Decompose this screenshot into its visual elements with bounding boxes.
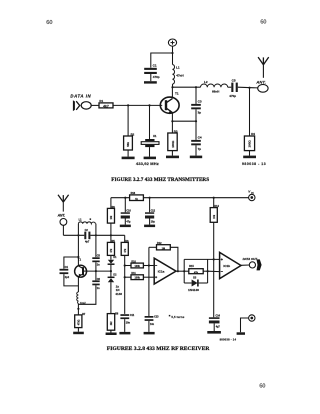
wire rail left segment bbox=[63, 234, 84, 236]
vcc rail segment 2 bbox=[143, 197, 248, 199]
diode D1 bbox=[108, 260, 115, 271]
wire collector up bbox=[171, 87, 173, 98]
node left bbox=[183, 270, 185, 272]
svg-text:4µ7: 4µ7 bbox=[216, 326, 221, 329]
transistor T1 RX bbox=[75, 265, 87, 277]
node C3 top bbox=[195, 86, 197, 88]
svg-text:47µ: 47µ bbox=[126, 220, 131, 223]
wire R1 to base bbox=[113, 104, 162, 106]
wire tank right vertical bbox=[95, 224, 97, 258]
resistor R15 bbox=[184, 269, 207, 274]
svg-text:L2: L2 bbox=[204, 80, 208, 84]
crystal X1 bbox=[141, 105, 159, 156]
terminal DATA OUT bbox=[249, 262, 255, 268]
ground under R3 bbox=[166, 156, 179, 159]
svg-text:980038 - 14: 980038 - 14 bbox=[220, 338, 237, 342]
resistor R10 bbox=[125, 263, 154, 268]
node C12 bbox=[149, 197, 151, 199]
svg-text:470p: 470p bbox=[229, 94, 236, 98]
svg-text:C4: C4 bbox=[198, 136, 202, 140]
wire loop top to C4 bbox=[64, 257, 79, 269]
node tank left rail bbox=[77, 234, 79, 236]
svg-text:C12: C12 bbox=[151, 209, 156, 212]
wire tank left vertical bbox=[77, 224, 79, 257]
node R2 bbox=[127, 104, 129, 106]
svg-text:1M: 1M bbox=[162, 248, 165, 251]
ground under C4 bbox=[190, 156, 202, 159]
ground under R2 bbox=[122, 157, 135, 160]
node R11 left bbox=[124, 276, 126, 278]
wire rail mid segment bbox=[90, 234, 124, 236]
wire base to node bbox=[87, 270, 111, 272]
resistor R12 feedback bbox=[149, 245, 178, 272]
svg-text:10n: 10n bbox=[126, 321, 131, 324]
resistor R4 bbox=[244, 88, 254, 156]
node emitter bottom bbox=[77, 308, 79, 310]
star marker L1 bbox=[90, 218, 92, 220]
terminal 0V bbox=[249, 315, 255, 321]
svg-text:R1: R1 bbox=[99, 99, 103, 103]
capacitor C6 bbox=[78, 271, 99, 304]
ground under C14 bbox=[207, 331, 221, 334]
wire supply to node bbox=[172, 46, 174, 53]
ground under R8 bbox=[106, 333, 117, 336]
node D1 D2 junction bbox=[110, 270, 112, 272]
wire emitter down bbox=[77, 276, 79, 292]
wire top bypass bbox=[184, 258, 219, 260]
ground under 0V bbox=[237, 332, 245, 335]
node R14 top bbox=[213, 197, 215, 199]
vcc rail left corner down bbox=[110, 198, 112, 209]
node collector/rail bbox=[171, 86, 173, 88]
antenna symbol RX bbox=[58, 195, 69, 212]
wire left vertical bbox=[183, 259, 185, 283]
wire emitter down bbox=[171, 113, 173, 121]
svg-text:L1: L1 bbox=[176, 66, 180, 70]
node base cap column bbox=[95, 270, 97, 272]
node emitter rail bbox=[171, 120, 173, 122]
svg-text:68nH: 68nH bbox=[212, 90, 219, 94]
capacitor C5 bbox=[231, 83, 238, 92]
wire ANT to rail bbox=[62, 225, 64, 235]
wire feedback column bbox=[148, 247, 150, 316]
resistor R11 bbox=[125, 275, 154, 280]
svg-text:DATA IN: DATA IN bbox=[70, 94, 91, 99]
node right bbox=[207, 270, 209, 272]
svg-text:R2: R2 bbox=[131, 132, 135, 136]
resistor R3 bbox=[168, 121, 177, 155]
svg-text:T1: T1 bbox=[78, 258, 82, 262]
svg-text:10n: 10n bbox=[150, 323, 155, 326]
svg-text:C3: C3 bbox=[198, 100, 202, 104]
svg-text:R3: R3 bbox=[174, 129, 178, 133]
resistor R8 bbox=[107, 314, 114, 333]
wire rail corner to R6 bbox=[124, 235, 126, 242]
capacitor C1 bbox=[144, 68, 157, 81]
diode D2 bbox=[108, 271, 115, 314]
capacitor C3 bbox=[191, 87, 201, 121]
antenna symbol bbox=[258, 57, 269, 78]
svg-text:X1: X1 bbox=[153, 134, 157, 138]
svg-text:C13: C13 bbox=[154, 316, 159, 319]
node R5 rail bbox=[110, 234, 112, 236]
svg-text:1n: 1n bbox=[97, 287, 100, 290]
resistor R9 bbox=[107, 208, 114, 235]
svg-text:100k: 100k bbox=[135, 265, 141, 268]
svg-text:FIGUREE 3.2.8 433 MHZ RF RECE: FIGUREE 3.2.8 433 MHZ RF RECEIVER bbox=[107, 346, 211, 352]
node IC1a output bbox=[177, 270, 179, 272]
terminal ANT circle bbox=[60, 219, 67, 226]
resistor R5 bbox=[107, 235, 114, 259]
capacitor C13 bbox=[145, 316, 154, 332]
wire IC1a output bbox=[176, 270, 184, 272]
capacitor C5 bbox=[92, 257, 99, 271]
svg-text:100Ω: 100Ω bbox=[248, 140, 252, 148]
terminal ANT oval bbox=[258, 84, 268, 92]
resistor R6 bbox=[121, 242, 128, 314]
node tank right rail bbox=[95, 234, 97, 236]
inductor L1 (tank) bbox=[78, 222, 95, 224]
svg-text:60: 60 bbox=[259, 383, 265, 389]
svg-text:470p: 470p bbox=[153, 75, 160, 79]
transistor T1 bbox=[160, 97, 179, 113]
ground under C10 bbox=[120, 225, 131, 228]
DATA IN oval terminal bbox=[81, 102, 91, 109]
wire terminal to R1 bbox=[91, 104, 99, 106]
svg-text:ANT.: ANT. bbox=[57, 214, 66, 218]
svg-text:IC1a: IC1a bbox=[158, 269, 165, 273]
svg-text:433,92 MHz: 433,92 MHz bbox=[136, 161, 159, 166]
wire IC1b output bbox=[241, 264, 249, 266]
wire emitter rail bbox=[172, 120, 196, 122]
DATA IN arrow symbol bbox=[73, 100, 75, 111]
svg-text:1n: 1n bbox=[97, 264, 100, 267]
svg-text:DATA OUT: DATA OUT bbox=[243, 257, 258, 261]
capacitor C4 (C-E loop) bbox=[60, 269, 69, 274]
svg-text:R16: R16 bbox=[131, 192, 136, 195]
capacitor C14 electrolytic bbox=[209, 317, 220, 331]
svg-text:R10: R10 bbox=[131, 260, 136, 263]
svg-text:C1: C1 bbox=[153, 64, 157, 68]
wire rail to L2 bbox=[173, 86, 201, 88]
node R10 left bbox=[124, 264, 126, 266]
svg-text:R11: R11 bbox=[131, 272, 136, 275]
node C3/C4 bbox=[195, 120, 197, 122]
node R4/ANT bbox=[248, 87, 250, 89]
resistor R1 bbox=[99, 103, 113, 108]
svg-text:56k: 56k bbox=[126, 142, 130, 147]
ground under C12 bbox=[144, 225, 155, 228]
capacitor C11 bbox=[120, 314, 129, 332]
svg-text:100Ω: 100Ω bbox=[171, 140, 175, 148]
ground under C13 bbox=[144, 332, 155, 335]
svg-text:5,5 turns: 5,5 turns bbox=[171, 315, 184, 319]
svg-text:C5: C5 bbox=[232, 78, 236, 82]
wire L2 to C5 bbox=[228, 86, 232, 88]
node collector corner bbox=[77, 256, 79, 258]
capacitor C2 (in rail) bbox=[84, 232, 90, 240]
diode D3 bbox=[184, 280, 207, 287]
svg-text:R4: R4 bbox=[251, 132, 255, 136]
node supply bbox=[171, 52, 173, 54]
svg-text:R14: R14 bbox=[214, 205, 219, 208]
choke L2 RX bbox=[77, 292, 79, 304]
svg-text:R15: R15 bbox=[189, 265, 194, 268]
wire loop bottom bbox=[64, 274, 79, 286]
svg-text:10µ: 10µ bbox=[151, 220, 156, 223]
node X1 bbox=[148, 104, 150, 106]
svg-text:470Ω: 470Ω bbox=[77, 319, 80, 325]
svg-text:4148: 4148 bbox=[115, 292, 122, 296]
resistor R7 bbox=[75, 304, 82, 332]
ground under C11 bbox=[119, 332, 130, 335]
svg-text:980038 - 13: 980038 - 13 bbox=[242, 162, 266, 166]
wire collector into transistor bbox=[77, 257, 79, 265]
inductor L2 bbox=[201, 84, 228, 87]
svg-text:2p2: 2p2 bbox=[65, 276, 70, 279]
DATA OUT arrow symbol bbox=[257, 259, 262, 270]
svg-text:C10: C10 bbox=[126, 209, 131, 212]
resistor R2 bbox=[124, 105, 133, 156]
wire 0V to ground bbox=[241, 318, 249, 332]
svg-text:3p: 3p bbox=[198, 111, 202, 115]
svg-text:47k: 47k bbox=[194, 271, 199, 274]
svg-text:C11: C11 bbox=[130, 314, 135, 317]
wire to IC1b minus input bbox=[208, 270, 220, 272]
inductor L1 bbox=[173, 53, 175, 87]
svg-text:100k: 100k bbox=[135, 277, 141, 280]
ground under X1 bbox=[144, 157, 156, 160]
ground under C1 bbox=[144, 81, 157, 83]
resistor R14 bbox=[210, 198, 217, 318]
svg-text:IC1b: IC1b bbox=[223, 264, 230, 268]
svg-text:60: 60 bbox=[46, 19, 52, 26]
svg-text:T1: T1 bbox=[175, 92, 179, 96]
node feedback input bbox=[148, 264, 150, 266]
svg-text:1N4148: 1N4148 bbox=[188, 288, 199, 292]
vcc rail segment 1 bbox=[111, 197, 130, 199]
wire right vertical bbox=[207, 259, 209, 283]
svg-text:C14: C14 bbox=[216, 314, 221, 317]
resistor R16 bbox=[130, 195, 144, 201]
svg-text:4p7: 4p7 bbox=[85, 241, 90, 244]
terminal Vcc bbox=[249, 194, 255, 200]
node C10 bbox=[124, 197, 126, 199]
op-amp IC1a bbox=[154, 258, 176, 284]
wire C5 to ANT node bbox=[238, 86, 258, 89]
ground under R7 bbox=[73, 332, 84, 335]
ground under R4 bbox=[243, 156, 256, 159]
op-amp IC1b bbox=[220, 252, 241, 278]
svg-text:R12: R12 bbox=[157, 242, 162, 245]
node R14 IC1b input bbox=[213, 258, 215, 260]
svg-text:FIGURE 3.2.7 433 MHZ TRANSMITT: FIGURE 3.2.7 433 MHZ TRANSMITTERS bbox=[111, 177, 209, 183]
svg-text:60: 60 bbox=[260, 19, 266, 25]
svg-text:ANT.: ANT. bbox=[255, 80, 266, 85]
capacitor C10 electrolytic bbox=[121, 198, 130, 225]
supply terminal + bbox=[168, 39, 176, 46]
svg-text:7p: 7p bbox=[198, 147, 202, 151]
svg-text:47nH: 47nH bbox=[176, 73, 183, 77]
note 5,5 turns bbox=[169, 315, 171, 317]
svg-text:4k7: 4k7 bbox=[103, 104, 109, 108]
wire node to C1 bbox=[151, 53, 173, 68]
capacitor C12 electrolytic bbox=[145, 198, 154, 225]
capacitor C4 bbox=[191, 121, 201, 155]
svg-text:1mH: 1mH bbox=[80, 302, 86, 305]
